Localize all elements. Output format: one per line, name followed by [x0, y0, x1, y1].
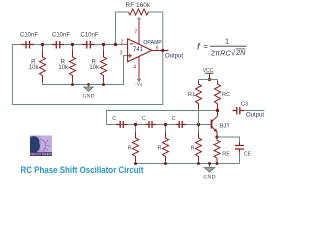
svg-text:2N: 2N	[235, 50, 246, 57]
capacitor CE	[235, 142, 244, 164]
svg-text:C10nF: C10nF	[81, 33, 99, 39]
svg-text:√: √	[231, 48, 236, 57]
capacitor C3 (output coupling)	[233, 107, 245, 115]
pin 4 stub (-Vs)	[137, 57, 141, 81]
svg-text:C: C	[112, 116, 116, 122]
svg-text:RE: RE	[222, 151, 230, 157]
resistor R ladder 1	[40, 50, 46, 82]
wire: lower ground rail	[136, 163, 240, 165]
label R 10k (2)	[58, 59, 69, 71]
op-amp plus input mark	[128, 54, 132, 58]
svg-text:C: C	[172, 116, 176, 122]
resistor RE	[214, 137, 220, 164]
svg-text:2πRC: 2πRC	[211, 48, 231, 57]
svg-text:R1: R1	[188, 92, 195, 98]
capacitor C1 10nF	[22, 41, 35, 49]
wire: op-amp output	[152, 50, 169, 52]
svg-text:C: C	[142, 116, 146, 122]
capacitor C (lower 2)	[145, 121, 156, 128]
wire: resistor top leads	[43, 45, 104, 51]
label R 10k (1)	[29, 59, 40, 71]
svg-text:Output: Output	[246, 113, 264, 119]
capacitor C2 10nF	[52, 41, 64, 49]
svg-text:10k: 10k	[89, 65, 100, 71]
wire: feedback loop left/bottom from output to ladder input	[12, 45, 162, 105]
svg-text:1: 1	[225, 37, 229, 46]
svg-text:R: R	[158, 146, 162, 152]
ground GND (lower)	[204, 162, 216, 181]
svg-text:741: 741	[133, 47, 144, 53]
junction dots ladder row	[41, 43, 117, 46]
svg-text:Output: Output	[165, 54, 183, 60]
svg-text:4: 4	[133, 65, 136, 71]
svg-text:OPAMP: OPAMP	[143, 40, 162, 46]
wire: base/ladder row (lower)	[107, 124, 212, 126]
svg-text:7: 7	[134, 29, 137, 35]
svg-text:R: R	[191, 146, 195, 152]
resistor RF 160k feedback	[129, 9, 149, 15]
resistor R (lower 1)	[133, 132, 139, 162]
junction dots ground rail	[71, 83, 105, 86]
formula f = 1/(2piRC sqrt(2N))	[197, 37, 247, 58]
resistor R2 (lower 3 / base bias)	[196, 132, 202, 162]
wire: lower resistor leads	[136, 125, 199, 164]
wire: VCC rail	[199, 79, 218, 81]
capacitor C3 10nF	[83, 41, 95, 49]
junction dot output node	[161, 49, 164, 52]
VCC symbol	[203, 68, 214, 81]
op-amp minus input mark	[130, 43, 134, 45]
resistor R ladder 2	[70, 50, 76, 82]
wire: collector feedback line	[107, 111, 218, 125]
junction dots lower ladder row	[134, 123, 200, 126]
ground GND (op-amp circuit)	[83, 83, 95, 99]
label R 10k (3)	[89, 59, 100, 71]
resistor RC (collector load)	[215, 80, 221, 111]
svg-text:2: 2	[121, 40, 124, 46]
svg-text:C10nF: C10nF	[52, 33, 70, 39]
svg-text:10k: 10k	[29, 65, 40, 71]
svg-text:C10nF: C10nF	[20, 33, 38, 39]
svg-text:VCC: VCC	[203, 68, 214, 74]
svg-text:RC Phase Shift Oscillator Circ: RC Phase Shift Oscillator Circuit	[21, 165, 144, 175]
wire: RF left lead vertical	[116, 12, 129, 45]
wire: RF right lead vertical	[149, 12, 163, 51]
op-amp U1 741	[128, 39, 152, 62]
pin 7 stub (+Vs)	[137, 17, 141, 45]
svg-text:f: f	[197, 42, 201, 53]
svg-text:GND: GND	[204, 175, 216, 181]
svg-text:BJT: BJT	[220, 124, 230, 130]
svg-text:10k: 10k	[58, 65, 69, 71]
junction dots lower ground rail	[134, 162, 219, 165]
svg-text:GND: GND	[83, 94, 95, 100]
logo Circuit Digest	[30, 136, 53, 157]
resistor R ladder 3	[101, 50, 107, 82]
wire: ladder input row (op-amp circuit)	[12, 44, 127, 46]
svg-text:-Vs: -Vs	[135, 83, 142, 88]
resistor R (lower 2)	[163, 132, 169, 162]
svg-text:CIRCUIT DIGEST: CIRCUIT DIGEST	[30, 152, 53, 156]
wire: ground rail of ladder resistors	[43, 56, 128, 85]
svg-text:=: =	[204, 42, 209, 51]
svg-text:C3: C3	[241, 102, 248, 108]
svg-text:R: R	[128, 146, 132, 152]
wire: output lead (lower)	[244, 110, 265, 112]
resistor R1 (bias upper)	[196, 80, 202, 125]
svg-text:RC: RC	[222, 92, 230, 98]
capacitor C (lower 1)	[116, 121, 128, 128]
svg-text:CE: CE	[244, 151, 252, 157]
junction dot collector node	[216, 109, 219, 112]
svg-text:RF 160k: RF 160k	[126, 2, 151, 9]
capacitor C (lower 3)	[176, 121, 187, 128]
svg-text:3: 3	[120, 50, 123, 56]
junction dot emitter node	[215, 135, 218, 138]
transistor Q1 BJT	[212, 111, 218, 138]
wire: emitter node to CE	[217, 137, 240, 142]
